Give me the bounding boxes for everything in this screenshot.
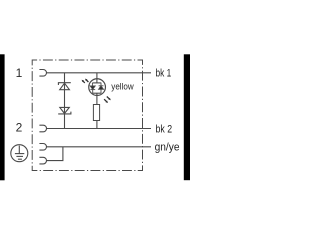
earth contact upper [39,144,46,151]
svg-text:bk 1: bk 1 [156,68,172,80]
contact pin 1 [39,70,46,77]
LED light arrows bottom-right [104,97,111,104]
resistor lower lead [96,121,98,129]
LED branch wire lower [96,93,98,104]
wire pin1 to bk1 [47,72,152,74]
LED chip right (conducts up) [99,83,104,93]
resistor R1 [93,105,99,121]
svg-text:1: 1 [16,66,23,80]
LED chip left (conducts down) [90,83,95,93]
zener diode D2 (cathode down) [58,107,71,114]
svg-text:bk 2: bk 2 [156,123,173,135]
LED circle [89,79,106,96]
wire earth lower joining [47,147,63,161]
LED internal top bar [92,82,101,84]
wire pin2 to bk2 [47,128,152,130]
suppressor branch wire [64,73,66,129]
earth contact lower [39,157,46,164]
zener diode D1 (cathode up) [58,83,70,90]
protective earth symbol [11,145,28,162]
svg-text:2: 2 [16,121,23,135]
LED light arrows top-left [82,79,89,83]
svg-text:gn/ye: gn/ye [155,142,180,154]
wire earth to gn/ye [47,146,152,148]
enclosure outline (valve plug housing, dash-dot) [32,60,142,171]
LED branch wire upper [96,73,98,83]
contact pin 2 [39,125,46,132]
svg-text:yellow: yellow [111,81,133,92]
LED internal bottom bar [92,92,101,94]
